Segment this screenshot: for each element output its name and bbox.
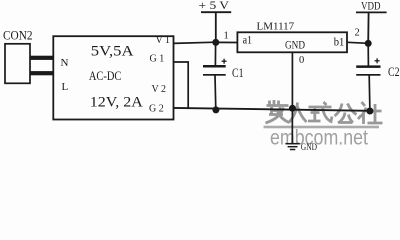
svg-text:CON2: CON2 bbox=[3, 28, 33, 43]
connector CON2 body bbox=[5, 44, 30, 84]
capacitor C1 plate top bbox=[203, 65, 226, 68]
svg-text:N: N bbox=[61, 57, 69, 69]
AC-DC module body bbox=[53, 36, 173, 119]
node C2 ground junction bbox=[366, 108, 373, 115]
earth ground symbol bbox=[285, 144, 299, 150]
svg-text:G 1: G 1 bbox=[150, 54, 165, 65]
svg-text:5V,5A: 5V,5A bbox=[91, 44, 134, 60]
svg-text:V 2: V 2 bbox=[152, 84, 167, 95]
svg-text:VDD: VDD bbox=[361, 0, 381, 13]
node +5V junction bbox=[212, 39, 219, 46]
capacitor C1 polarity + bbox=[222, 59, 227, 64]
svg-text:LM1117: LM1117 bbox=[257, 20, 295, 32]
capacitor C2 plate top bbox=[356, 65, 380, 68]
svg-text:1: 1 bbox=[224, 30, 229, 41]
svg-text:GND: GND bbox=[285, 39, 305, 51]
svg-text:C1: C1 bbox=[232, 66, 244, 80]
power +5V symbol bbox=[201, 12, 231, 42]
capacitor C2 polarity + bbox=[375, 58, 380, 63]
svg-text:embcom.net: embcom.net bbox=[270, 127, 368, 150]
wire GND pin to bus bbox=[291, 52, 293, 108]
svg-text:2: 2 bbox=[355, 28, 360, 39]
CON2 pin bar bottom bbox=[30, 71, 54, 75]
svg-text:C2: C2 bbox=[388, 65, 400, 79]
watermark bbox=[266, 100, 383, 124]
capacitor C2 plate bottom bbox=[356, 74, 380, 76]
svg-text:G 2: G 2 bbox=[149, 104, 164, 115]
capacitor C1 plate bottom bbox=[203, 74, 226, 76]
wire G1 to ground bus bbox=[173, 62, 188, 109]
regulator U1 body bbox=[237, 32, 347, 52]
node C1 ground junction bbox=[212, 106, 219, 113]
svg-text:12V, 2A: 12V, 2A bbox=[90, 95, 143, 111]
node VDD junction bbox=[365, 40, 372, 47]
svg-text:0: 0 bbox=[299, 55, 304, 66]
node GND bus junction bbox=[289, 105, 296, 112]
capacitor C2 lead bottom bbox=[368, 76, 371, 112]
svg-text:L: L bbox=[62, 81, 69, 93]
svg-text:+ 5 V: + 5 V bbox=[199, 0, 230, 12]
svg-text:V 1: V 1 bbox=[156, 35, 171, 46]
svg-text:AC-DC: AC-DC bbox=[89, 68, 122, 83]
capacitor C2 lead top bbox=[367, 43, 369, 65]
ground bus wire G2 to C2 bbox=[173, 108, 370, 111]
wire V1 to +5V node bbox=[173, 42, 215, 43]
CON2 pin bar top bbox=[30, 56, 54, 60]
wire +5V node to a1 bbox=[216, 41, 238, 43]
power VDD symbol bbox=[356, 12, 387, 43]
svg-text:a1: a1 bbox=[243, 35, 253, 47]
svg-text:GND: GND bbox=[301, 143, 317, 153]
capacitor C1 lead bottom bbox=[214, 76, 217, 110]
capacitor C1 lead top bbox=[214, 42, 216, 65]
svg-text:b1: b1 bbox=[334, 36, 345, 48]
wire b1 to VDD node bbox=[347, 42, 368, 43]
earth ground stem bbox=[291, 108, 293, 143]
